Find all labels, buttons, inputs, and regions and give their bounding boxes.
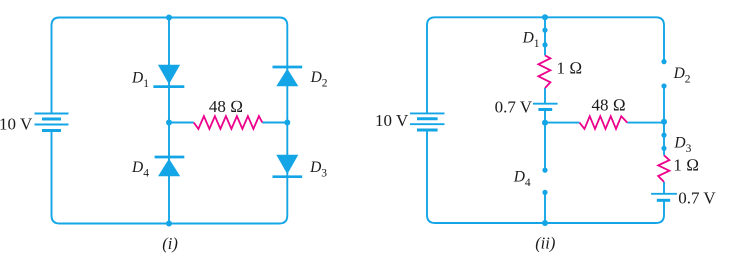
svg-text:(i): (i) xyxy=(162,234,178,253)
svg-text:D4: D4 xyxy=(513,169,531,190)
svg-text:D2: D2 xyxy=(310,69,328,90)
svg-text:D4: D4 xyxy=(131,159,149,180)
svg-text:D2: D2 xyxy=(673,65,691,86)
diode D3 (circuit i, points down) xyxy=(273,155,303,177)
node: top junction circuit (i) xyxy=(166,15,172,21)
resistor 1 ohm (D3 branch, circuit ii) xyxy=(658,155,669,182)
wire: circuit (i) mid horizontal right of 48ohm resistor xyxy=(262,122,287,124)
battery 0.7 V (D3 branch, circuit ii) xyxy=(651,194,677,201)
svg-text:D1: D1 xyxy=(522,29,540,50)
wire: circuit (ii) left bottom + bottom wire + right bottom corner xyxy=(427,130,664,223)
wire: circuit (ii) right branch between 1ohm and 0.7V battery xyxy=(663,182,665,194)
node: D3 bottom terminal dot xyxy=(661,146,666,151)
svg-text:10 V: 10 V xyxy=(375,111,409,130)
node: circuit (ii) middle node junction xyxy=(542,120,548,126)
resistor 48 ohm (circuit i) xyxy=(194,116,263,129)
svg-text:10 V: 10 V xyxy=(0,115,33,134)
svg-text:48 Ω: 48 Ω xyxy=(592,95,626,114)
svg-text:D3: D3 xyxy=(673,134,691,155)
battery B2 10 V (circuit ii) xyxy=(410,113,445,130)
svg-text:48 Ω: 48 Ω xyxy=(209,97,243,116)
diode D2 (circuit i, points up) xyxy=(273,67,303,86)
svg-text:0.7 V: 0.7 V xyxy=(495,98,533,117)
wire: circuit (ii) middle branch D4 bottom terminal to bottom xyxy=(544,192,546,223)
wire: circuit (i) middle branch D1/D4 xyxy=(168,18,170,224)
node: mid-right junction circuit (i) xyxy=(284,120,290,126)
svg-text:1 Ω: 1 Ω xyxy=(557,59,583,78)
node: circuit (ii) bottom junction xyxy=(542,220,548,226)
node: D3 top terminal dot xyxy=(661,133,666,138)
svg-text:D1: D1 xyxy=(131,69,149,90)
resistor 1 ohm (D1 branch, circuit ii) xyxy=(538,55,550,88)
svg-text:1 Ω: 1 Ω xyxy=(673,155,699,174)
node: D2 top terminal dot xyxy=(661,59,666,64)
node: circuit (ii) right mid junction xyxy=(661,119,667,125)
node: D1 bottom terminal dot xyxy=(542,42,547,47)
wire: circuit (ii) middle branch between 1ohm and 0.7V battery xyxy=(544,88,546,104)
svg-text:(ii): (ii) xyxy=(535,234,555,253)
wire: circuit (ii) middle branch 0.7V battery to D4 top terminal xyxy=(544,110,546,171)
node: D1 top terminal dot xyxy=(542,28,547,33)
diode D4 (circuit i, points up) xyxy=(155,157,185,176)
battery 0.7 V (D1 branch, circuit ii) xyxy=(533,104,558,110)
node: bottom junction circuit (i) xyxy=(166,221,172,227)
diode D1 (circuit i, points down) xyxy=(153,65,184,87)
wire: circuit (ii) middle branch top (through D1 terminals) xyxy=(544,17,546,55)
wire: circuit (i) outer loop with battery gap on left xyxy=(52,18,288,224)
battery B1 10 V (circuit i) xyxy=(35,114,69,131)
node: D2 bottom terminal dot xyxy=(661,83,666,88)
wire: circuit (ii) mid horizontal left of 48ohm xyxy=(545,122,580,124)
node: D4 bottom terminal dot xyxy=(542,190,547,195)
wire: circuit (ii) right branch D2 bottom terminal to D3 region xyxy=(663,86,665,155)
node: mid-left junction circuit (i) xyxy=(166,120,172,126)
node: circuit (ii) top junction of middle branch xyxy=(542,14,548,20)
node: D4 top terminal dot xyxy=(542,168,547,173)
wire: circuit (ii) left side + top wire + right top segment xyxy=(427,17,664,113)
svg-text:0.7 V: 0.7 V xyxy=(678,189,716,208)
wire: circuit (i) mid horizontal left of 48ohm resistor xyxy=(169,122,194,124)
svg-text:D3: D3 xyxy=(309,159,327,180)
wire: circuit (ii) mid horizontal right of 48ohm xyxy=(627,122,664,124)
resistor 48 ohm (circuit ii) xyxy=(580,116,628,129)
